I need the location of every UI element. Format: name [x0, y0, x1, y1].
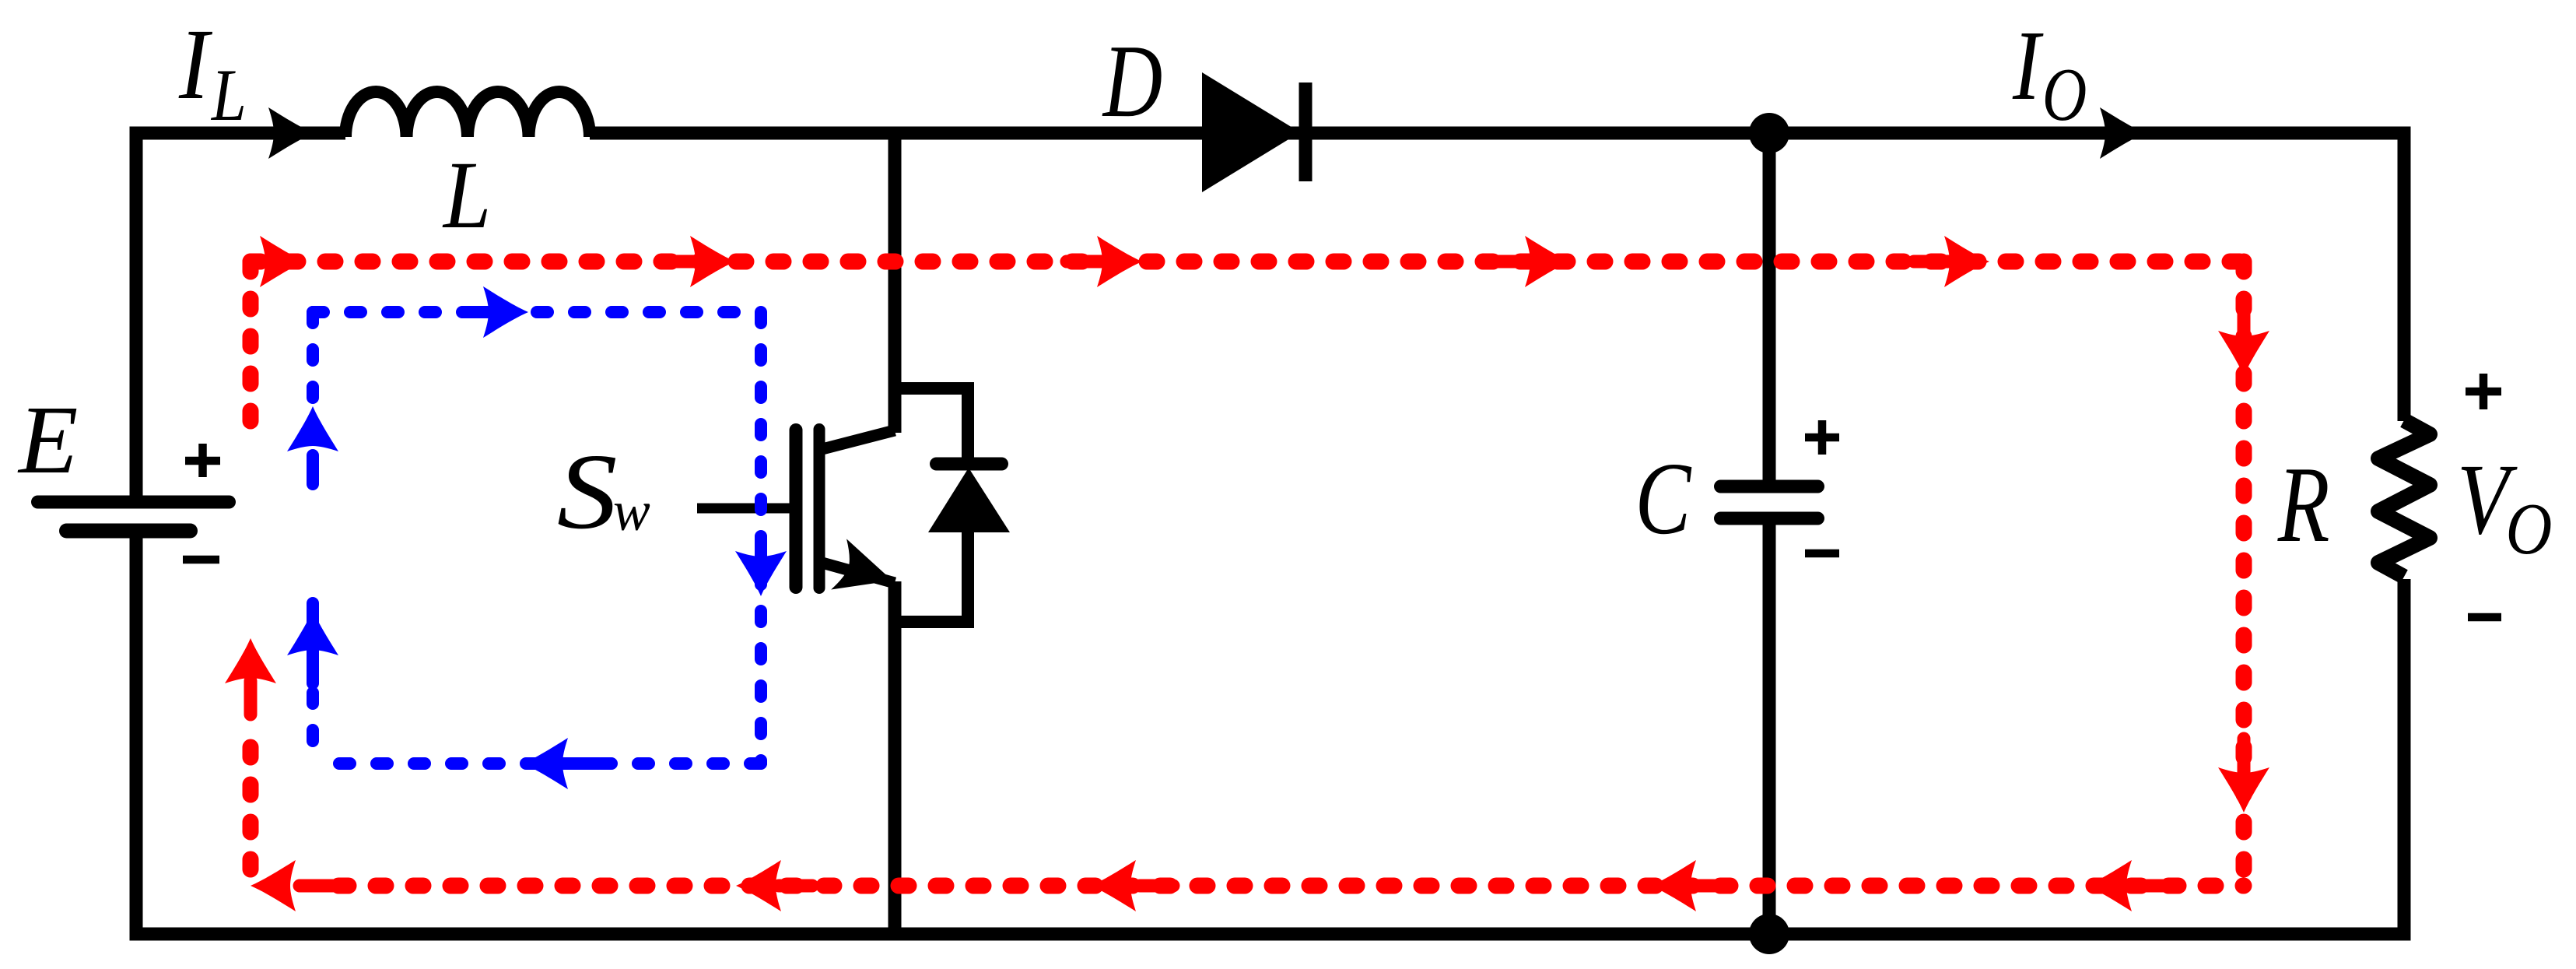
- svg-text:C: C: [1635, 441, 1692, 556]
- svg-text:I: I: [178, 8, 212, 121]
- svg-text:E: E: [17, 387, 78, 494]
- svg-text:L: L: [210, 54, 247, 137]
- svg-text:R: R: [2277, 444, 2330, 565]
- svg-text:D: D: [1102, 23, 1162, 139]
- svg-text:O: O: [2042, 54, 2087, 137]
- svg-text:L: L: [442, 142, 491, 248]
- svg-text:O: O: [2506, 489, 2553, 570]
- svg-text:S: S: [557, 431, 618, 551]
- svg-text:w: w: [613, 479, 650, 542]
- svg-text:I: I: [2012, 11, 2044, 121]
